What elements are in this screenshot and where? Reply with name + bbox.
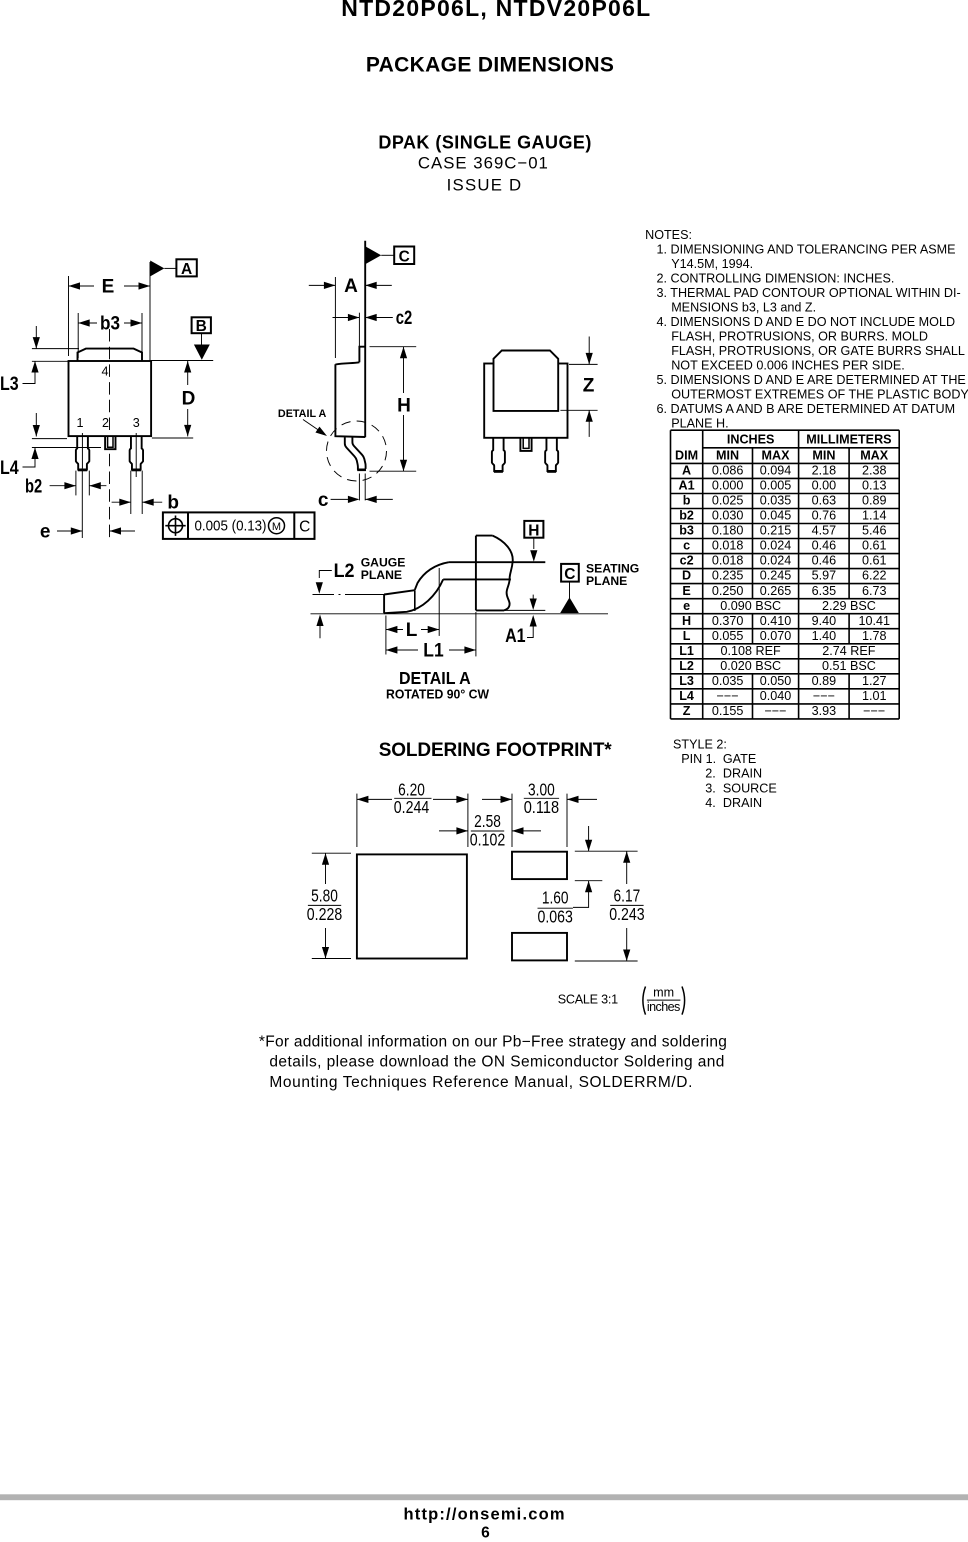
1.60 reference lines xyxy=(575,850,638,852)
A dimension arrows xyxy=(309,284,336,286)
svg-text:b: b xyxy=(167,493,179,514)
body top line extended left xyxy=(32,360,69,362)
svg-text:C: C xyxy=(399,249,410,266)
datum C line / body right edge xyxy=(364,241,366,438)
svg-text:0.040: 0.040 xyxy=(760,689,792,703)
H dimension line and arrows xyxy=(403,347,405,472)
svg-text:0.118: 0.118 xyxy=(524,797,559,817)
lead bottom reference line xyxy=(504,609,545,611)
back tab outline xyxy=(494,351,559,411)
svg-text:2.58: 2.58 xyxy=(474,811,501,831)
pin 1 lead xyxy=(76,436,89,469)
svg-text:10.41: 10.41 xyxy=(858,614,890,628)
lead foot top edge xyxy=(384,590,415,594)
svg-text:http://onsemi.com: http://onsemi.com xyxy=(404,1506,565,1524)
svg-text:c2: c2 xyxy=(680,554,694,568)
svg-text:4. DIMENSIONS D AND E DO NOT I: 4. DIMENSIONS D AND E DO NOT INCLUDE MOL… xyxy=(657,315,956,329)
svg-text:ISSUE D: ISSUE D xyxy=(447,176,522,195)
svg-text:L1: L1 xyxy=(423,640,444,661)
svg-text:PLANE: PLANE xyxy=(361,568,402,582)
svg-text:1.78: 1.78 xyxy=(862,629,887,643)
svg-text:*For additional information on: *For additional information on our Pb−Fr… xyxy=(259,1033,727,1050)
back middle stub outer xyxy=(520,438,531,451)
svg-text:0.243: 0.243 xyxy=(609,904,644,924)
svg-text:0.180: 0.180 xyxy=(712,524,744,538)
svg-text:0.46: 0.46 xyxy=(812,539,837,553)
svg-text:MIN: MIN xyxy=(716,448,739,462)
svg-text:FLASH, PROTRUSIONS, OR GATE BU: FLASH, PROTRUSIONS, OR GATE BURRS SHALL xyxy=(671,344,965,358)
svg-text:A: A xyxy=(181,261,192,278)
datum C box xyxy=(394,247,414,265)
svg-text:Mounting Techniques Reference: Mounting Techniques Reference Manual, SO… xyxy=(269,1074,692,1091)
body outline xyxy=(69,361,152,436)
b2 arrows xyxy=(50,485,76,487)
L2 lower arrow xyxy=(319,618,321,638)
L extension line left xyxy=(385,616,387,655)
svg-text:1.01: 1.01 xyxy=(862,689,887,703)
Z top reference line xyxy=(569,363,598,365)
svg-text:Y14.5M, 1994.: Y14.5M, 1994. xyxy=(671,257,753,271)
svg-text:0.005 (0.13): 0.005 (0.13) xyxy=(195,518,267,535)
svg-text:C: C xyxy=(299,518,310,535)
svg-text:b3: b3 xyxy=(679,524,694,538)
svg-text:9.40: 9.40 xyxy=(812,614,837,628)
svg-text:1.27: 1.27 xyxy=(862,674,887,688)
svg-text:Z: Z xyxy=(683,704,691,718)
tab outline xyxy=(78,349,143,361)
pin 3 center line xyxy=(135,433,137,477)
A1 lower arrow with bracket xyxy=(527,618,533,638)
FOOTER xyxy=(0,1033,968,1541)
L1 dimension arrows xyxy=(386,649,418,651)
svg-text:DIM: DIM xyxy=(675,448,698,462)
modifier M circle xyxy=(269,518,285,534)
back pin tip bottom edges xyxy=(494,470,503,473)
svg-text:2.18: 2.18 xyxy=(812,464,837,478)
svg-text:inches: inches xyxy=(647,1000,681,1014)
pin tip bottom edges xyxy=(78,469,87,472)
svg-text:4: 4 xyxy=(101,365,108,379)
svg-text:6.73: 6.73 xyxy=(862,584,887,598)
pin 1 center line xyxy=(81,433,83,468)
STYLE 2 xyxy=(673,737,777,810)
FRONT VIEW xyxy=(0,259,213,542)
seating plane triangle xyxy=(560,597,579,613)
svg-text:L2: L2 xyxy=(334,561,355,582)
svg-text:L: L xyxy=(683,629,691,643)
svg-text:6.17: 6.17 xyxy=(614,886,641,906)
svg-text:MAX: MAX xyxy=(762,448,791,462)
seating plane line xyxy=(311,613,609,615)
body blob bottom edge xyxy=(476,609,504,611)
svg-text:OUTERMOST EXTREMES OF THE PLAS: OUTERMOST EXTREMES OF THE PLASTIC BODY. xyxy=(671,387,968,401)
Z top arrow xyxy=(588,337,590,365)
svg-text:0.370: 0.370 xyxy=(712,614,744,628)
svg-text:2.: 2. xyxy=(705,767,716,781)
svg-text:0.090 BSC: 0.090 BSC xyxy=(720,599,781,613)
svg-text:0.265: 0.265 xyxy=(760,584,792,598)
pin 2 stub inner xyxy=(108,436,113,447)
svg-text:SCALE 3:1: SCALE 3:1 xyxy=(558,993,618,1007)
svg-text:MILLIMETERS: MILLIMETERS xyxy=(806,433,891,447)
svg-text:0.51 BSC: 0.51 BSC xyxy=(822,659,876,673)
svg-text:5.80: 5.80 xyxy=(311,886,338,906)
back pin left xyxy=(492,438,505,471)
svg-text:0.245: 0.245 xyxy=(760,569,792,583)
5.80 dimension line xyxy=(325,853,327,884)
L3 lower arrow with bracket xyxy=(23,361,36,384)
svg-text:A1: A1 xyxy=(679,479,695,493)
svg-text:2.38: 2.38 xyxy=(862,464,887,478)
feature control frame box xyxy=(163,512,315,539)
SIDE VIEW xyxy=(278,241,416,511)
svg-text:0.018: 0.018 xyxy=(712,539,744,553)
H label (white backed) xyxy=(395,393,413,415)
6.17 dimension line xyxy=(626,851,628,884)
lead outline top curve xyxy=(415,562,449,590)
svg-text:0.063: 0.063 xyxy=(538,907,573,927)
svg-text:0.108 REF: 0.108 REF xyxy=(721,644,782,658)
dimension E line and arrows xyxy=(69,285,151,287)
6.17 bottom reference line xyxy=(575,960,638,962)
svg-text:0.46: 0.46 xyxy=(812,554,837,568)
A dimension extension line xyxy=(334,277,336,358)
svg-text:e: e xyxy=(40,522,51,543)
svg-text:e: e xyxy=(683,599,690,613)
titles xyxy=(341,0,650,195)
svg-text:details, please download the O: details, please download the ON Semicond… xyxy=(269,1054,724,1071)
svg-text:6.35: 6.35 xyxy=(812,584,837,598)
Z bottom arrow xyxy=(588,410,590,437)
svg-text:DETAIL A: DETAIL A xyxy=(278,408,327,420)
svg-text:0.086: 0.086 xyxy=(712,464,744,478)
dimension D label (white backed) xyxy=(179,385,196,409)
gauge plane dash-dot line xyxy=(313,594,387,596)
5.80 reference lines xyxy=(312,852,351,854)
H dimension top line xyxy=(370,346,417,348)
svg-text:0.13: 0.13 xyxy=(862,479,887,493)
svg-text:6: 6 xyxy=(481,1525,490,1542)
svg-text:4.57: 4.57 xyxy=(812,524,837,538)
svg-text:STYLE 2:: STYLE 2: xyxy=(673,737,727,751)
svg-text:1.14: 1.14 xyxy=(862,509,887,523)
DETAIL A xyxy=(311,521,640,702)
svg-text:2.74 REF: 2.74 REF xyxy=(822,644,876,658)
svg-text:c: c xyxy=(318,490,329,511)
svg-text:L1: L1 xyxy=(679,644,694,658)
svg-text:L4: L4 xyxy=(0,458,19,479)
body blob break-line right edge xyxy=(493,536,513,611)
svg-text:H: H xyxy=(682,614,691,628)
svg-text:0.235: 0.235 xyxy=(712,569,744,583)
e arrows xyxy=(57,530,82,532)
back pin right xyxy=(545,438,558,471)
svg-text:0.76: 0.76 xyxy=(812,509,837,523)
6.20 dimension line xyxy=(357,798,392,800)
L3 upper arrow xyxy=(35,326,37,349)
svg-text:C: C xyxy=(564,566,575,583)
svg-text:SOURCE: SOURCE xyxy=(723,781,777,795)
svg-text:E: E xyxy=(102,277,115,298)
bottom right pad xyxy=(512,933,567,961)
detail A leader arrow xyxy=(303,420,322,433)
svg-text:A1: A1 xyxy=(505,626,526,647)
arrowheads xyxy=(357,796,369,803)
datum A extension line xyxy=(149,262,151,361)
svg-text:3. THERMAL PAD CONTOUR OPTIONA: 3. THERMAL PAD CONTOUR OPTIONAL WITHIN D… xyxy=(657,286,961,300)
body blob top edge xyxy=(476,535,493,537)
svg-text:5.97: 5.97 xyxy=(812,569,837,583)
svg-text:0.024: 0.024 xyxy=(760,539,792,553)
dimension b3 line and arrows xyxy=(78,322,142,324)
body bottom extended left xyxy=(32,438,67,440)
svg-text:D: D xyxy=(682,569,691,583)
svg-text:1.40: 1.40 xyxy=(812,629,837,643)
datum A leader xyxy=(164,267,176,269)
lead tangent line xyxy=(414,590,416,611)
body top line extended right xyxy=(151,360,213,362)
svg-text:−−−: −−− xyxy=(717,689,739,703)
H flag arrow xyxy=(533,538,535,549)
lead foot bottom and bottom curve xyxy=(384,579,443,613)
svg-text:MENSIONS b3, L3 and Z.: MENSIONS b3, L3 and Z. xyxy=(671,301,816,315)
svg-text:b3: b3 xyxy=(100,314,120,335)
svg-text:0.89: 0.89 xyxy=(812,674,837,688)
BACK VIEW xyxy=(0,0,1,1)
svg-text:D: D xyxy=(182,389,196,410)
svg-text:5.46: 5.46 xyxy=(862,524,887,538)
L dimension arrows xyxy=(386,629,403,631)
svg-text:0.025: 0.025 xyxy=(712,494,744,508)
svg-text:0.018: 0.018 xyxy=(712,554,744,568)
svg-text:FLASH, PROTRUSIONS, OR BURRS.: FLASH, PROTRUSIONS, OR BURRS. MOLD xyxy=(671,330,928,344)
svg-text:3.: 3. xyxy=(705,781,716,795)
svg-text:b2: b2 xyxy=(679,509,694,523)
svg-text:CASE 369C−01: CASE 369C−01 xyxy=(418,153,548,172)
svg-text:L3: L3 xyxy=(0,374,19,395)
body bottom line extended right xyxy=(152,437,193,439)
svg-text:NTD20P06L, NTDV20P06L: NTD20P06L, NTDV20P06L xyxy=(341,0,650,21)
body blob left edge xyxy=(475,536,477,611)
svg-text:M: M xyxy=(272,521,281,533)
svg-text:L3: L3 xyxy=(679,674,694,688)
svg-text:INCHES: INCHES xyxy=(727,433,775,447)
TRUE POSITION FRAME xyxy=(163,512,315,539)
lead bend xyxy=(345,437,366,470)
SOLDERING FOOTPRINT xyxy=(307,740,685,1015)
svg-text:0.228: 0.228 xyxy=(307,904,342,924)
datum B triangle xyxy=(194,345,210,360)
3.00 dimension line xyxy=(482,798,512,800)
svg-text:3.93: 3.93 xyxy=(812,704,837,718)
detail A dashed circle xyxy=(327,421,387,481)
back body outline xyxy=(484,364,567,438)
svg-text:NOT EXCEED 0.006 INCHES PER SI: NOT EXCEED 0.006 INCHES PER SIDE. xyxy=(671,359,905,373)
c2 extension line xyxy=(358,313,360,347)
b2 extension lines xyxy=(76,471,89,496)
svg-text:0.020 BSC: 0.020 BSC xyxy=(720,659,781,673)
svg-text:PLANE: PLANE xyxy=(586,574,627,588)
svg-text:−−−: −−− xyxy=(764,704,786,718)
svg-text:0.094: 0.094 xyxy=(760,464,792,478)
svg-text:0.61: 0.61 xyxy=(862,554,887,568)
top right pad xyxy=(512,852,567,879)
svg-text:0.030: 0.030 xyxy=(712,509,744,523)
svg-text:MAX: MAX xyxy=(860,448,889,462)
centerline through pin 2 (dashed) xyxy=(109,329,111,434)
L extension line right xyxy=(438,568,440,636)
seating plane leader xyxy=(569,582,571,599)
svg-text:0.61: 0.61 xyxy=(862,539,887,553)
lead foot left edge xyxy=(383,595,385,614)
svg-text:4.: 4. xyxy=(705,796,716,810)
svg-text:mm: mm xyxy=(653,986,674,1000)
L4 reference line xyxy=(32,447,101,449)
svg-text:DRAIN: DRAIN xyxy=(723,767,762,781)
L2 bracket and upper arrow xyxy=(319,571,332,579)
position symbol xyxy=(169,519,183,533)
svg-text:0.215: 0.215 xyxy=(760,524,792,538)
svg-text:0.045: 0.045 xyxy=(760,509,792,523)
dimension b3 extension lines xyxy=(78,313,142,358)
A1 upper arrow xyxy=(532,595,534,601)
datum C leader xyxy=(381,254,394,256)
svg-text:PACKAGE DIMENSIONS: PACKAGE DIMENSIONS xyxy=(366,54,614,77)
svg-text:H: H xyxy=(397,396,411,417)
svg-text:b: b xyxy=(683,494,691,508)
svg-text:2: 2 xyxy=(102,416,109,430)
svg-text:0.070: 0.070 xyxy=(760,629,792,643)
svg-text:3: 3 xyxy=(133,416,140,430)
svg-text:0.250: 0.250 xyxy=(712,584,744,598)
svg-text:c: c xyxy=(683,539,690,553)
svg-text:6.22: 6.22 xyxy=(862,569,887,583)
svg-text:b2: b2 xyxy=(25,477,42,498)
datum C flag triangle xyxy=(366,247,382,265)
svg-text:0.050: 0.050 xyxy=(760,674,792,688)
back middle stub inner xyxy=(523,438,529,449)
table grid xyxy=(671,429,900,431)
datum B box xyxy=(192,317,211,333)
svg-text:0.035: 0.035 xyxy=(760,494,792,508)
svg-text:0.410: 0.410 xyxy=(760,614,792,628)
svg-text:A: A xyxy=(682,464,691,478)
svg-text:SOLDERING FOOTPRINT*: SOLDERING FOOTPRINT* xyxy=(379,740,613,761)
svg-text:−−−: −−− xyxy=(813,689,835,703)
svg-text:0.244: 0.244 xyxy=(394,797,430,817)
svg-text:0.00: 0.00 xyxy=(812,479,837,493)
BACK VIEW xyxy=(484,337,597,472)
svg-text:0.000: 0.000 xyxy=(712,479,744,493)
2.58 arrows lines xyxy=(439,830,468,832)
b extension lines xyxy=(131,471,142,514)
svg-text:A: A xyxy=(344,276,358,297)
svg-text:0.005: 0.005 xyxy=(760,479,792,493)
svg-text:0.102: 0.102 xyxy=(470,830,505,850)
tab profile xyxy=(359,347,365,363)
L4 upper arrow xyxy=(35,413,37,437)
svg-text:0.89: 0.89 xyxy=(862,494,887,508)
L1 extension line right xyxy=(475,612,477,656)
lead bottom surface line xyxy=(443,578,511,580)
dimension E extension line left xyxy=(68,276,70,356)
datum A flag triangle xyxy=(150,261,164,277)
datum B leader xyxy=(201,333,203,345)
svg-text:1. DIMENSIONING AND TOLERANCIN: 1. DIMENSIONING AND TOLERANCING PER ASME xyxy=(657,243,956,257)
main pad xyxy=(357,854,467,958)
svg-text:0.035: 0.035 xyxy=(712,674,744,688)
svg-text:MIN: MIN xyxy=(812,448,835,462)
svg-text:6. DATUMS A AND B ARE DETERMIN: 6. DATUMS A AND B ARE DETERMINED AT DATU… xyxy=(657,402,956,416)
c2 arrows xyxy=(333,317,360,319)
pin 2 stub outer xyxy=(105,436,115,449)
svg-text:NOTES:: NOTES: xyxy=(645,228,692,242)
body profile xyxy=(335,362,365,437)
svg-text:ROTATED 90° CW: ROTATED 90° CW xyxy=(386,687,490,702)
L4 lower arrow with bracket xyxy=(23,448,36,468)
lead top surface line xyxy=(449,561,545,563)
H flag box xyxy=(524,521,543,538)
Z bottom reference line xyxy=(560,409,597,411)
b arrows xyxy=(112,501,131,503)
svg-text:c2: c2 xyxy=(396,308,413,329)
svg-text:L: L xyxy=(406,620,418,641)
svg-text:E: E xyxy=(682,584,690,598)
svg-text:DETAIL A: DETAIL A xyxy=(399,668,471,688)
svg-text:0.155: 0.155 xyxy=(712,704,744,718)
svg-text:−−−: −−− xyxy=(863,704,885,718)
svg-text:B: B xyxy=(196,318,207,335)
svg-text:DRAIN: DRAIN xyxy=(723,796,762,810)
svg-text:PIN 1.: PIN 1. xyxy=(681,752,716,766)
svg-text:H: H xyxy=(528,522,539,539)
NOTES xyxy=(645,228,968,430)
svg-text:2. CONTROLLING DIMENSION: INCH: 2. CONTROLLING DIMENSION: INCHES. xyxy=(657,272,895,286)
svg-text:L4: L4 xyxy=(679,689,694,703)
svg-text:5. DIMENSIONS D AND E ARE DETE: 5. DIMENSIONS D AND E ARE DETERMINED AT … xyxy=(657,373,966,387)
tab top line extended left xyxy=(32,348,79,350)
svg-text:1.60: 1.60 xyxy=(542,888,569,908)
svg-text:2.29 BSC: 2.29 BSC xyxy=(822,599,876,613)
bottom gray rule xyxy=(0,1494,968,1500)
svg-text:0.055: 0.055 xyxy=(712,629,744,643)
svg-text:L2: L2 xyxy=(679,659,694,673)
lead foot bottom xyxy=(357,468,366,471)
svg-text:1: 1 xyxy=(76,416,83,430)
svg-text:PLANE H.: PLANE H. xyxy=(671,416,728,430)
svg-text:0.024: 0.024 xyxy=(760,554,792,568)
mm/inches fraction xyxy=(643,987,646,1015)
svg-text:DPAK (SINGLE GAUGE): DPAK (SINGLE GAUGE) xyxy=(378,133,591,153)
c arrows xyxy=(331,498,358,500)
6.20 extension lines xyxy=(356,794,358,847)
3.00 extension lines xyxy=(511,794,513,847)
svg-text:Z: Z xyxy=(583,376,595,397)
seating plane C box xyxy=(561,564,579,582)
TABLE xyxy=(671,430,900,719)
c extension lines xyxy=(359,474,365,501)
dimension D line and arrows xyxy=(187,361,189,436)
H dimension bottom line xyxy=(370,470,417,472)
svg-text:GATE: GATE xyxy=(723,752,756,766)
1.60 arrows lines xyxy=(588,826,590,851)
e extension line (pin 1 center) xyxy=(81,468,83,538)
pin 3 lead xyxy=(130,436,143,469)
datum A box xyxy=(176,259,196,276)
svg-text:0.63: 0.63 xyxy=(812,494,837,508)
